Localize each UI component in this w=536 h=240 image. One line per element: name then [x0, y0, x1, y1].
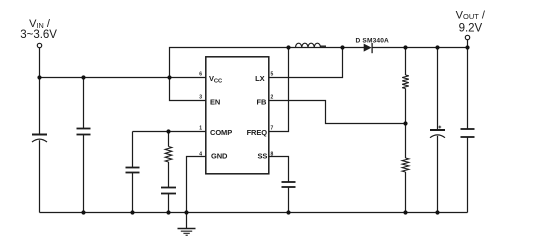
wire bottom rail: [40, 212, 468, 214]
svg-text:VOUT /: VOUT /: [456, 10, 486, 22]
node VOUT terminal: [465, 35, 469, 39]
wire FREQ net: [269, 48, 289, 132]
svg-text:COMP: COMP: [210, 128, 232, 137]
capacitor Cc2 comp: [168, 162, 170, 187]
wire VOUT stub: [467, 40, 469, 48]
node Co1 bottom: [435, 210, 439, 214]
svg-text:FB: FB: [256, 97, 266, 106]
capacitor Cc1 comp: [132, 132, 134, 168]
inductor L: [289, 47, 343, 49]
node input T: [37, 75, 41, 79]
wire VIN stub: [39, 48, 41, 78]
svg-text:1: 1: [199, 125, 202, 131]
node Cc2 bottom: [166, 210, 170, 214]
node C2 top: [81, 75, 85, 79]
node Css bottom: [286, 210, 290, 214]
wire diode cathode to output: [372, 47, 467, 49]
svg-text:D SM340A: D SM340A: [356, 37, 390, 44]
capacitor Co2 output ceramic: [467, 48, 469, 129]
svg-text:8: 8: [271, 151, 274, 157]
node divider top: [403, 45, 407, 49]
wire diode anode: [343, 47, 365, 49]
svg-text:6: 6: [199, 71, 202, 77]
capacitor C1 input electrolytic: [39, 78, 41, 135]
resistor R1 feedback top: [405, 48, 407, 76]
svg-text:7: 7: [271, 125, 274, 131]
resistor R2 feedback bottom: [405, 124, 407, 159]
wire top rail left: [170, 48, 289, 78]
wire SS net: [269, 157, 289, 182]
svg-text:LX: LX: [255, 74, 264, 83]
node ground: [184, 210, 188, 214]
node Cc1 bottom: [130, 210, 134, 214]
svg-text:EN: EN: [210, 98, 220, 107]
svg-text:GND: GND: [211, 151, 228, 160]
svg-text:5: 5: [271, 71, 274, 77]
capacitor C2 input ceramic: [83, 78, 85, 129]
node inductor left: [286, 45, 290, 49]
node C2 bottom: [81, 210, 85, 214]
wire FB net: [269, 101, 406, 124]
svg-text:FREQ: FREQ: [247, 128, 268, 137]
node R2 bottom: [403, 210, 407, 214]
capacitor Css soft-start: [282, 181, 296, 183]
svg-text:2: 2: [271, 94, 274, 100]
svg-text:3: 3: [199, 94, 202, 100]
capacitor Co1 output electrolytic: [437, 48, 439, 130]
node VIN terminal: [37, 43, 41, 47]
node FB: [403, 121, 407, 125]
wire COMP net: [133, 131, 206, 133]
svg-text:3~3.6V: 3~3.6V: [20, 29, 57, 41]
op-amp U1 regulator IC box: [206, 57, 269, 174]
node inductor right: [340, 45, 344, 49]
diode D SM340A: [364, 44, 372, 52]
svg-text:9.2V: 9.2V: [459, 23, 483, 35]
svg-text:4: 4: [199, 151, 202, 157]
wire input rail: [40, 77, 206, 79]
wire EN connection: [170, 78, 206, 101]
wire LX net: [269, 48, 343, 78]
resistor Rc comp: [168, 132, 170, 147]
node comp: [166, 129, 170, 133]
node Co1 top: [435, 45, 439, 49]
ground: [186, 213, 188, 229]
wire GND pin drop: [187, 157, 206, 213]
node VOUT: [465, 45, 469, 49]
svg-text:SS: SS: [257, 151, 267, 160]
node VCC/EN: [167, 75, 171, 79]
